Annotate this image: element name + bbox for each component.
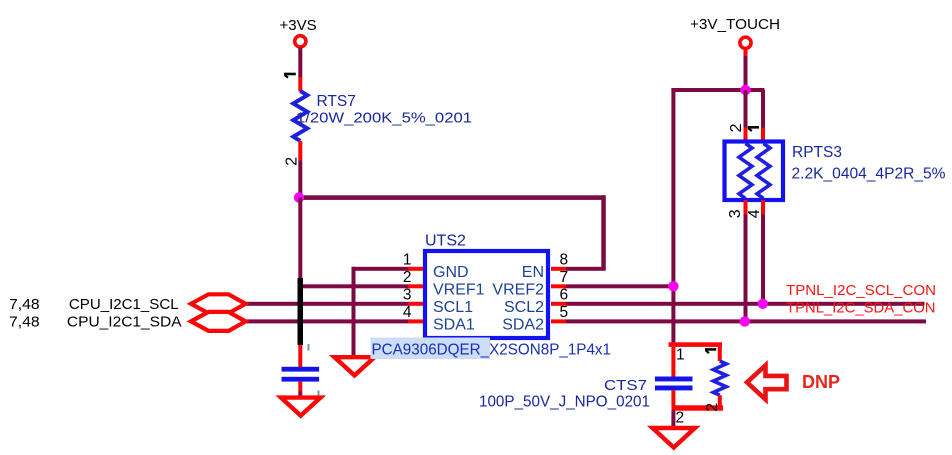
- svg-text:3: 3: [403, 287, 412, 304]
- wire CPU_I2C1_SCL: [245, 302, 410, 306]
- wire touch node horizontals: [671, 88, 764, 92]
- resistor DNP (parallel with CTS7): [704, 347, 726, 412]
- off-page connector (SDA): [191, 312, 246, 331]
- wire node down (maroon): [298, 198, 302, 279]
- DNP arrow: [747, 365, 787, 399]
- wire node to EN (up-over-down): [298, 195, 605, 200]
- svg-text:TPNL_I2C_SDA_CON: TPNL_I2C_SDA_CON: [786, 301, 936, 317]
- off-page connector (SCL): [191, 294, 246, 313]
- ground (near UTS2 pin1): [335, 357, 375, 375]
- svg-text:1: 1: [403, 252, 412, 269]
- junction dot SCL: [758, 299, 768, 309]
- resistor pack RPTS3: [725, 123, 946, 218]
- svg-text:CPU_I2C1_SCL: CPU_I2C1_SCL: [69, 297, 179, 313]
- svg-text:6: 6: [560, 287, 569, 304]
- svg-text:SDA2: SDA2: [502, 317, 544, 334]
- svg-text:2: 2: [284, 157, 301, 166]
- junction dot +3V_TOUCH: [740, 85, 750, 95]
- svg-text:7: 7: [560, 269, 569, 286]
- svg-text:CPU_I2C1_SDA: CPU_I2C1_SDA: [67, 315, 182, 331]
- wire wide black segment: [298, 278, 304, 345]
- capacitor CTS7: [479, 342, 723, 426]
- svg-text:8: 8: [560, 252, 569, 269]
- UTS2 pin numbers: [403, 252, 568, 322]
- wire +3V_TOUCH down: [744, 49, 748, 56]
- svg-text:VREF2: VREF2: [492, 282, 544, 299]
- wire RPTS3 pin4 down to SCL: [761, 200, 765, 215]
- ground (below CTS7): [653, 428, 696, 448]
- svg-text:4: 4: [746, 209, 763, 218]
- svg-text:1: 1: [676, 347, 685, 364]
- power symbol +3VS: [280, 17, 317, 47]
- svg-text:7,48: 7,48: [9, 315, 40, 331]
- svg-text:GND: GND: [433, 264, 469, 281]
- junction dot VREF2: [668, 281, 678, 291]
- wire SCL2 long: [566, 302, 925, 306]
- svg-text:UTS2: UTS2: [425, 233, 466, 250]
- node junction dot at RTS7 bottom: [294, 192, 304, 202]
- resistor R RTS7: [284, 74, 472, 166]
- svg-text:7,48: 7,48: [9, 297, 40, 313]
- svg-text:EN: EN: [522, 264, 544, 281]
- svg-text:DNP: DNP: [802, 371, 840, 392]
- wire VREF1 pin2 to black column: [300, 284, 410, 288]
- wire left branch down to CTS7: [671, 88, 675, 344]
- svg-text:100P_50V_J_NPO_0201: 100P_50V_J_NPO_0201: [479, 393, 650, 410]
- svg-text:SCL1: SCL1: [433, 299, 473, 316]
- svg-text:PCA9306DQER_X2SON8P_1P4x1: PCA9306DQER_X2SON8P_1P4x1: [372, 342, 612, 359]
- wire GND pin1 to ground: [353, 267, 410, 271]
- svg-text:2: 2: [676, 409, 685, 426]
- wire CPU_I2C1_SDA: [245, 319, 410, 323]
- svg-text:2: 2: [704, 403, 721, 412]
- svg-text:5: 5: [560, 304, 569, 321]
- svg-text:TPNL_I2C_SCL_CON: TPNL_I2C_SCL_CON: [786, 283, 936, 299]
- wire +3VS to RTS7 pin 1: [298, 48, 302, 78]
- svg-text:4: 4: [403, 304, 412, 321]
- svg-text:2.2K_0404_4P2R_5%: 2.2K_0404_4P2R_5%: [792, 166, 946, 183]
- wire to RPTS3 pin 2: [744, 90, 748, 128]
- wire to RPTS3 pin 1: [761, 90, 765, 128]
- svg-text:+3VS: +3VS: [280, 17, 317, 34]
- op IC UTS2 body: [425, 233, 548, 338]
- svg-text:RPTS3: RPTS3: [792, 144, 842, 161]
- svg-text:1/20W_200K_5%_0201: 1/20W_200K_5%_0201: [296, 109, 472, 126]
- svg-text:2: 2: [403, 269, 412, 286]
- wire RPTS3 pin3 down to SDA: [744, 200, 748, 215]
- svg-text:+3V_TOUCH: +3V_TOUCH: [690, 17, 780, 33]
- wire RTS7 pin2 down to node: [298, 161, 302, 200]
- power symbol +3V_TOUCH: [690, 17, 780, 49]
- UTS2 part number with highlight: [371, 338, 612, 360]
- svg-text:SCL2: SCL2: [504, 299, 544, 316]
- UTS2 pin names: [433, 264, 544, 334]
- wire CTS7 to ground: [671, 410, 675, 428]
- svg-text:CTS7: CTS7: [604, 377, 647, 394]
- capacitor C (VREF1 decoupling): [282, 344, 320, 399]
- junction dot SDA: [740, 316, 750, 326]
- svg-text:RTS7: RTS7: [317, 93, 356, 110]
- UTS2 pin stubs right 8-5: [551, 267, 566, 271]
- svg-text:3: 3: [727, 209, 744, 218]
- svg-text:VREF1: VREF1: [433, 282, 485, 299]
- svg-text:2: 2: [728, 123, 745, 132]
- UTS2 pin stubs left 1-4: [408, 267, 423, 271]
- wire SDA2 long: [566, 319, 926, 323]
- ground (below capacitor): [281, 398, 321, 416]
- wire VREF2 pin7 to node: [566, 284, 674, 288]
- svg-text:SDA1: SDA1: [433, 317, 475, 334]
